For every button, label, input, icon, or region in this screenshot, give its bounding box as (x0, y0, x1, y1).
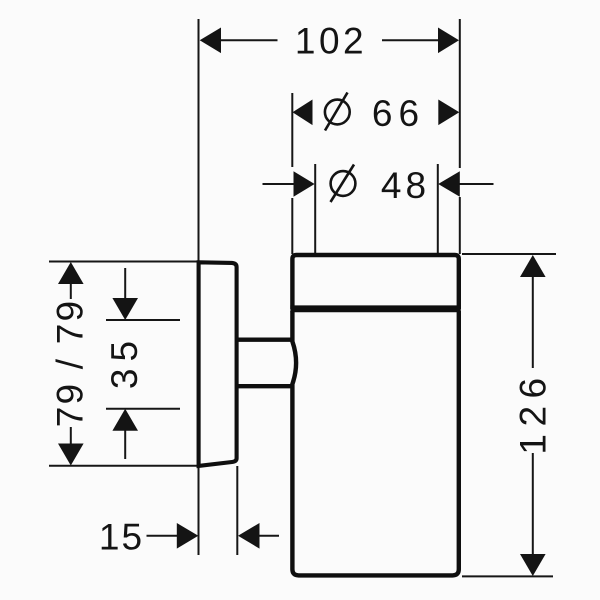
extension line below wall plate left (198, 466, 200, 555)
extension line dim 66 left (x=292.3, break at crossing arrow) (291, 93, 293, 167)
svg-text:66: 66 (372, 93, 425, 134)
extension line below wall plate right (for 15) (236, 466, 238, 555)
extension line dim 48 left (314, 164, 316, 254)
svg-text:126: 126 (512, 370, 553, 454)
dim line 35 lower tail (124, 430, 126, 459)
tumbler body (292, 311, 458, 575)
arrow dim 66 right (438, 100, 459, 126)
dim line 15 left segment (147, 535, 178, 537)
arrow dim 102 left (200, 28, 221, 54)
arrow dim 15 left (points right) (177, 523, 199, 549)
arrow dim 15 right (points left) (238, 523, 260, 549)
dim line 79/79 upper segment (70, 283, 72, 299)
arrow dim 48 left (points right) (294, 171, 315, 197)
tick line 35 top (y=320) (106, 319, 180, 321)
dim line 79/79 lower segment (70, 427, 72, 445)
extension line right of dim 102 / dim 66 (x=459.8, break at crossing arrow) (459, 19, 461, 168)
dim line 48 right segment (460, 183, 494, 185)
arrow dim 126 top (points up) (520, 255, 546, 277)
arrow dim 126 bottom (points down) (520, 554, 546, 576)
svg-text:48: 48 (381, 165, 430, 206)
arrow dim 35 bottom (points up) (112, 409, 138, 431)
dim line 102 right segment (382, 39, 439, 41)
dim line 126 lower segment (532, 453, 534, 555)
extension line 126 top (y=254) (462, 253, 556, 255)
svg-text:79 / 79: 79 / 79 (49, 299, 90, 428)
svg-text:15: 15 (99, 516, 144, 557)
arrow dim 79/79 top (points up) (58, 262, 84, 284)
stem top line (236, 338, 293, 342)
diameter symbol of dim 66 (325, 93, 350, 131)
extension line 79/79 top (y=261.5) (49, 261, 197, 263)
dim line 102 left segment (221, 39, 278, 41)
svg-text:102: 102 (295, 21, 367, 62)
arrow dim 79/79 bottom (points down) (58, 444, 84, 466)
dim line 35 upper tail (124, 268, 126, 299)
wall plate (side view) (199, 262, 237, 466)
dim line 126 upper segment (532, 276, 534, 368)
tick line 35 bottom (y=408.8) (106, 408, 180, 410)
tumbler rim (holder ring) (292, 255, 458, 309)
arrow dim 35 top (points down) (112, 298, 138, 320)
extension line left of dim 102 (x=198.5, also serves 15 dim) (198, 19, 200, 261)
arrow dim 102 right (438, 28, 459, 54)
arrow dim 48 right (points left) (438, 171, 460, 197)
rim separation band (290, 305, 460, 312)
dim line 15 right segment (260, 535, 280, 537)
stem bottom line (236, 384, 293, 388)
extension line dim 48 right (437, 164, 439, 254)
dim line 48 left segment (263, 183, 295, 185)
diameter symbol of dim 48 (331, 165, 356, 203)
extension line 79/79 bottom (y=465.8) (49, 465, 197, 467)
extension line 126 bottom (y=576.4) (462, 575, 553, 577)
arrow dim 66 left (293, 100, 313, 126)
svg-text:35: 35 (104, 334, 145, 389)
